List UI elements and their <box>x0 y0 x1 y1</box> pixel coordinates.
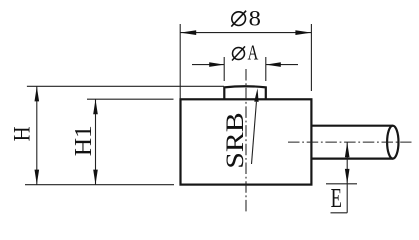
svg-text:H: H <box>10 126 35 141</box>
diaA dimension line right tail <box>266 64 298 66</box>
diaA arrow left (points right) <box>209 62 224 67</box>
E underline <box>331 212 348 214</box>
H arrow down <box>35 170 40 185</box>
dia8 extension line right <box>310 24 312 91</box>
H1 dimension line <box>95 99 97 184</box>
cable bottom line <box>312 158 393 160</box>
diaA extension line left <box>223 57 225 81</box>
load button on top <box>224 86 265 99</box>
H1 arrow up <box>93 99 98 114</box>
diaA dimension line left tail <box>192 64 224 66</box>
svg-text:A: A <box>248 41 259 65</box>
extension line at button top level (for H) <box>27 85 224 87</box>
E arrow down (tip at bottom extension line) <box>345 169 350 184</box>
cable end ellipse <box>387 126 398 159</box>
dia8 extension line left <box>179 24 181 99</box>
SRB leader arrowhead <box>254 88 258 102</box>
dia8 arrow right <box>295 30 311 35</box>
E arrow up (tip at cable centerline) <box>345 142 350 157</box>
dia8 label <box>231 6 261 31</box>
vertical centerline <box>245 69 247 212</box>
svg-text:E: E <box>331 183 342 213</box>
cable top line <box>312 125 393 127</box>
H arrow up <box>35 86 40 101</box>
svg-text:8: 8 <box>249 6 261 31</box>
E extension line (body bottom level extended right) <box>326 183 357 185</box>
H1 arrow down <box>93 170 98 185</box>
diaA extension line right <box>265 57 267 81</box>
diaA arrow right (points left) <box>266 62 281 67</box>
extension line at body bottom level (for H and H1) <box>25 184 174 186</box>
diaA label <box>232 41 259 65</box>
E dimension line <box>346 142 348 213</box>
svg-text:H1: H1 <box>71 125 97 156</box>
body rectangle (load cell side view) <box>181 99 312 184</box>
dia8 dimension line <box>180 32 311 34</box>
H dimension line <box>36 86 38 184</box>
extension line at body top level (for H1) <box>87 98 174 100</box>
dia8 arrow left <box>180 30 196 35</box>
svg-text:SRB: SRB <box>220 112 249 169</box>
horizontal centerline <box>288 141 412 143</box>
SRB leader line <box>252 102 257 164</box>
